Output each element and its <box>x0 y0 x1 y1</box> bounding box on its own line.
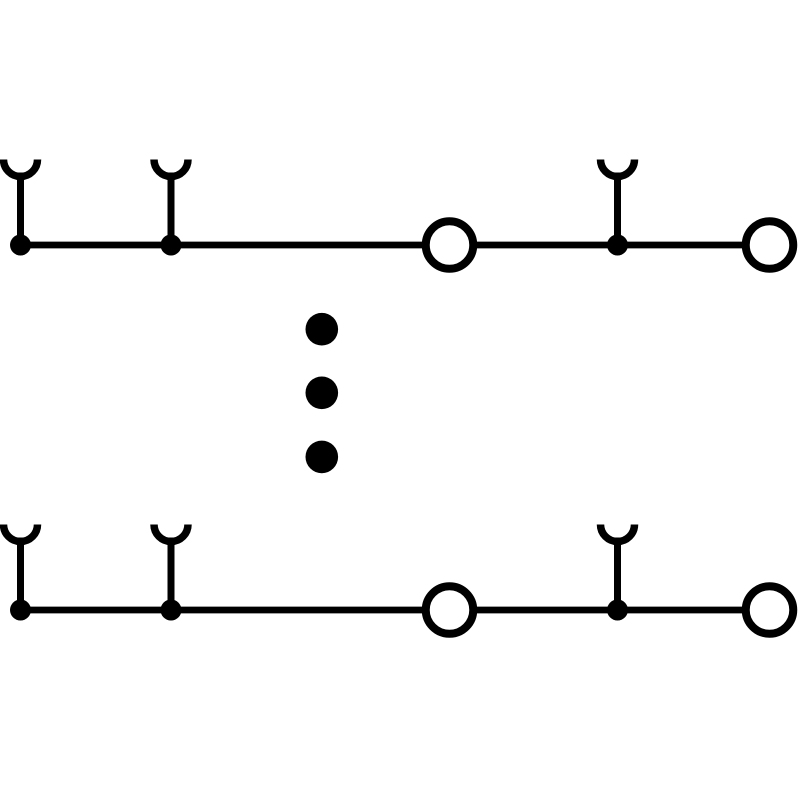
port P3 (open circle on row-2 bus) <box>426 586 474 634</box>
port P2 (open circle, right end of row-1 bus) <box>746 221 794 269</box>
port P4 (open circle, right end of row-2 bus) <box>746 586 794 634</box>
antenna ANT5 (cup and stem) <box>154 525 188 611</box>
wire: row-1 bus, right segment <box>474 242 747 249</box>
node: junction dot of ANT2 on row-1 bus <box>161 235 182 256</box>
node: junction dot of ANT5 on row-2 bus <box>161 600 182 621</box>
antenna ANT2 (cup and stem) <box>154 160 188 246</box>
ellipsis dot 2 (rows repeat) <box>306 377 339 410</box>
antenna ANT3 (cup and stem) <box>601 160 635 246</box>
port P1 (open circle on row-1 bus) <box>426 221 474 269</box>
wire: row-2 bus, left segment <box>21 607 427 614</box>
wire: row-2 bus, right segment <box>474 607 747 614</box>
node: junction dot of ANT4 on row-2 bus <box>10 600 31 621</box>
antenna ANT1 (cup and stem) <box>4 160 38 246</box>
node: junction dot of ANT6 on row-2 bus <box>607 600 628 621</box>
ellipsis dot 3 (rows repeat) <box>306 441 339 474</box>
antenna ANT6 (cup and stem) <box>601 525 635 611</box>
node: junction dot of ANT1 on row-1 bus <box>10 235 31 256</box>
ellipsis dot 1 (rows repeat) <box>306 313 339 346</box>
wire: row-1 bus, left segment <box>21 242 427 249</box>
node: junction dot of ANT3 on row-1 bus <box>607 235 628 256</box>
antenna ANT4 (cup and stem) <box>4 525 38 611</box>
